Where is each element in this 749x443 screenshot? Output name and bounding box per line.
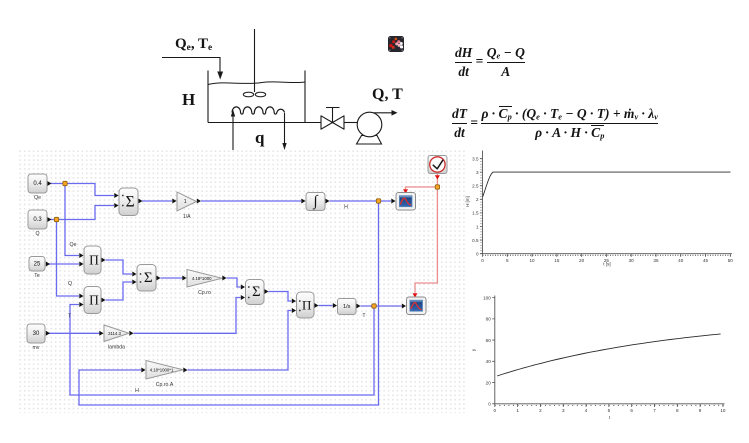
wire gain Cp.ro.A to product3: [188, 311, 292, 371]
port arrow sum2 out: [156, 276, 160, 281]
port arrow product1 out: [101, 258, 105, 263]
constant Q source=0.3: [28, 210, 47, 237]
svg-text:3: 3: [476, 170, 479, 175]
svg-text:40: 40: [678, 258, 684, 263]
wire sum1 to gain 1/A: [142, 200, 172, 202]
port arrow integrator out: [325, 199, 329, 204]
port arrow gain Cp.ro in: [182, 276, 186, 281]
gain gain Cp.ro=4.18*1000: [187, 270, 222, 297]
chart2 y tick labels: [483, 295, 491, 406]
wire Qe const to sum1: [51, 184, 114, 196]
port arrow sum1 in2: [114, 203, 118, 208]
svg-text:Σ: Σ: [126, 193, 135, 210]
svg-text:Q: Q: [68, 281, 72, 287]
block scope1 CSCOPE: [396, 193, 416, 211]
event wire junction to scope1: [406, 187, 438, 189]
svg-text:10: 10: [720, 408, 726, 413]
dotted grid canvas of block diagram: [17, 148, 466, 413]
svg-text:Σ: Σ: [144, 270, 153, 286]
chart2 y-axis: [494, 296, 496, 404]
svg-text:60: 60: [486, 338, 492, 343]
wire gain 1/A to integrator: [201, 200, 301, 202]
chart2 x major ticks: [495, 404, 723, 407]
port arrow product3 out: [314, 303, 318, 308]
port arrow product2 in1: [79, 294, 83, 299]
block sum1 &#931;: [119, 188, 138, 216]
stirrer blade right: [255, 92, 265, 97]
pump circle: [357, 112, 382, 137]
port arrow product2 out: [101, 298, 105, 303]
constant Qe source=0.4: [28, 174, 47, 201]
chart1 x major ticks: [483, 254, 731, 257]
valve stem: [326, 108, 340, 123]
tank bottom / outlet pipe: [208, 122, 321, 124]
chart1 y minor ticks: [480, 159, 482, 254]
svg-text:2: 2: [539, 408, 542, 413]
chart2 curve T(t): [497, 334, 720, 376]
port arrow gain lambda out: [129, 331, 133, 336]
port arrow sum1 in1: [114, 193, 118, 198]
svg-text:5: 5: [506, 258, 509, 263]
svg-text:t: t: [609, 415, 611, 420]
svg-text:Σ: Σ: [252, 284, 260, 300]
block sum3 &#931;: [246, 280, 265, 305]
chart1 curve H(t): [483, 172, 731, 196]
svg-text:1/s: 1/s: [343, 304, 351, 310]
tank left wall: [207, 71, 209, 123]
svg-text:15: 15: [554, 258, 560, 263]
svg-text:0: 0: [476, 252, 479, 257]
port arrow const Qe out: [47, 181, 51, 186]
wire gain Cp.ro to sum3: [227, 278, 241, 287]
svg-text:5: 5: [608, 408, 611, 413]
port arrow scope2 event in: [413, 293, 418, 297]
svg-text:1: 1: [516, 408, 519, 413]
port arrow const Q out: [47, 217, 51, 222]
block scope2 CSCOPE: [407, 297, 427, 315]
block 1/s: [338, 299, 357, 315]
svg-text:2114.3: 2114.3: [108, 331, 121, 336]
svg-text:8: 8: [676, 408, 679, 413]
svg-text:10: 10: [529, 258, 535, 263]
svg-text:2: 2: [476, 197, 479, 202]
chart1 x-axis: [483, 253, 733, 255]
block product3 &#928;: [297, 292, 315, 318]
port arrow sum3 in1: [241, 285, 245, 290]
port signs sum1: [122, 195, 124, 207]
port arrow product1 in2: [79, 262, 83, 267]
svg-text:Te: Te: [34, 273, 40, 279]
equation dT/dt: [452, 106, 658, 142]
port arrow sum2 in2: [132, 280, 136, 285]
pump base: [357, 136, 382, 145]
valve body: [321, 116, 344, 129]
wire mv to gain lambda: [49, 332, 100, 334]
port arrow 1/s out: [356, 304, 360, 309]
svg-text:Q: Q: [35, 231, 39, 237]
svg-text:H: H: [344, 205, 348, 211]
svg-text:35: 35: [653, 258, 659, 263]
port arrow gain lambda in: [99, 331, 103, 336]
inlet pipe Qe,Te: [162, 58, 220, 73]
junction node Q: [54, 217, 58, 221]
svg-text:45: 45: [703, 258, 709, 263]
wire integrator to scope1: [330, 200, 392, 202]
svg-text:20: 20: [486, 380, 492, 385]
svg-text:30: 30: [629, 258, 635, 263]
constant Te source=25: [29, 257, 45, 280]
svg-text:4: 4: [585, 408, 588, 413]
svg-text:t [s]: t [s]: [603, 262, 610, 267]
svg-text:1/A: 1/A: [183, 214, 191, 220]
wire T feedback: [70, 305, 374, 396]
svg-text:6: 6: [630, 408, 633, 413]
port arrow gain 1/A in: [172, 199, 176, 204]
inlet arrowhead: [217, 72, 223, 80]
port arrow const Te out: [46, 262, 50, 267]
outlet line Q,T: [374, 112, 393, 114]
port arrow gain Cp.ro.A out: [183, 368, 187, 373]
wire 1/s to scope2: [361, 305, 402, 307]
svg-text:0.3: 0.3: [33, 217, 42, 223]
svg-text:H: H: [135, 388, 139, 394]
port arrow 1/s in: [333, 303, 337, 308]
svg-text:0: 0: [481, 258, 484, 263]
svg-text:0.5: 0.5: [472, 238, 479, 243]
svg-text:9: 9: [699, 408, 702, 413]
svg-text:30: 30: [33, 331, 40, 337]
port arrow product3 in2: [292, 308, 296, 313]
svg-text:2.5: 2.5: [472, 184, 479, 189]
chart2 x-axis: [495, 403, 725, 405]
heater right lead: [284, 113, 286, 143]
port arrow product3 in1: [292, 299, 296, 304]
heater right lead arrowhead (down): [282, 143, 286, 150]
wire product2 to sum2: [106, 282, 133, 300]
chart1 x tick labels: [481, 258, 733, 263]
equation dH/dt: [455, 45, 525, 80]
heater left lead arrowhead (up): [231, 110, 235, 117]
junction node Qe: [63, 181, 67, 185]
svg-text:lambda: lambda: [108, 345, 125, 351]
stirrer blade left: [243, 92, 253, 97]
svg-text:1: 1: [476, 224, 479, 229]
chart1 y major ticks: [480, 159, 483, 254]
port arrow const mv out: [46, 331, 50, 336]
block clock: [428, 156, 447, 174]
svg-text:7: 7: [653, 408, 656, 413]
chart1 y-axis: [482, 151, 484, 254]
event wire junction to scope2: [415, 187, 437, 293]
svg-text:40: 40: [486, 359, 492, 364]
svg-text:mv: mv: [33, 345, 40, 351]
block integrator: [306, 193, 325, 211]
wire sum2 to gain Cp.ro: [161, 277, 183, 279]
tank right wall: [304, 71, 306, 123]
wire Qe branch to product1: [65, 184, 79, 256]
wire Q const to sum1: [51, 206, 114, 220]
svg-text:Cp.ro: Cp.ro: [198, 290, 211, 296]
svg-text:0.4: 0.4: [33, 181, 42, 187]
port arrow sum3 out: [264, 289, 268, 294]
constant mv source=30: [27, 324, 45, 351]
gain gain lambda=2114.3: [104, 325, 129, 351]
gain gain Cp.ro.A=4.18*1000*1: [146, 361, 183, 389]
junction node clock: [435, 185, 439, 189]
svg-text:Π: Π: [89, 293, 99, 308]
svg-text:3.5: 3.5: [472, 156, 479, 161]
port arrow scope2 in: [402, 304, 406, 309]
event wire clock to junction: [436, 174, 438, 187]
port arrow product1 in1: [79, 253, 83, 258]
svg-text:H [m]: H [m]: [465, 196, 470, 207]
scilab app icon: [388, 36, 404, 52]
svg-text:3: 3: [562, 408, 565, 413]
svg-text:Π: Π: [89, 253, 99, 268]
port arrow gain 1/A out: [197, 199, 201, 204]
port arrow integrator in: [301, 199, 305, 204]
block product1 &#928;: [84, 246, 101, 274]
port arrow clock event out: [435, 175, 440, 179]
port arrow sum3 in2: [241, 295, 245, 300]
port arrow gain Cp.ro.A in: [141, 368, 145, 373]
wire product1 to sum2: [106, 260, 133, 274]
heater left lead: [232, 116, 234, 150]
svg-text:0: 0: [488, 402, 491, 407]
gain gain 1/A=1: [177, 192, 197, 220]
wire product3 to 1/s: [319, 305, 333, 307]
junction node T: [372, 304, 376, 308]
wire gain lambda to sum3: [134, 298, 241, 334]
svg-text:1: 1: [184, 199, 187, 205]
chart1 y tick labels: [472, 156, 479, 256]
heating coil: [232, 107, 285, 114]
svg-text:1.5: 1.5: [472, 211, 479, 216]
svg-text:Π: Π: [302, 298, 311, 313]
svg-text:25: 25: [34, 261, 41, 267]
port arrow gain Cp.ro out: [222, 276, 226, 281]
port arrow sum2 in1: [132, 272, 136, 277]
svg-text:100: 100: [483, 295, 491, 300]
wire Te to product1: [48, 263, 79, 265]
water surface: [208, 82, 305, 85]
block product2 &#928;: [84, 287, 101, 314]
wire H feedback: [79, 201, 379, 405]
tank schematic text labels: [175, 36, 212, 53]
port signs sum2: [140, 273, 142, 283]
chart2 y major ticks: [492, 298, 495, 404]
port arrow sum1 out: [138, 199, 142, 204]
chart2 x minor ticks: [495, 404, 725, 406]
svg-text:y: y: [471, 348, 476, 351]
svg-text:T: T: [68, 314, 72, 320]
svg-text:50: 50: [728, 258, 734, 263]
port arrow scope1 in: [391, 199, 395, 204]
wire sum3 to product3: [269, 292, 292, 302]
pipe valve to pump: [344, 122, 358, 124]
svg-text:Qe: Qe: [70, 242, 77, 248]
svg-text:Cp.ro.A: Cp.ro.A: [156, 382, 174, 388]
wire Q branch to product2: [57, 220, 80, 297]
junction node H: [376, 199, 380, 203]
port arrow scope1 event in: [403, 189, 408, 193]
svg-text:20: 20: [579, 258, 585, 263]
svg-text:Qe: Qe: [34, 195, 41, 201]
svg-text:80: 80: [486, 317, 492, 322]
svg-text:4.18*1000*1: 4.18*1000*1: [150, 368, 174, 373]
port signs sum3: [248, 286, 250, 298]
svg-text:0: 0: [494, 408, 497, 413]
svg-text:T: T: [362, 313, 366, 319]
chart1 x minor ticks: [483, 254, 733, 256]
svg-text:4.18*1000: 4.18*1000: [192, 276, 212, 281]
outlet arrowhead: [392, 110, 398, 116]
stirrer shaft: [254, 29, 256, 92]
block sum2 &#931;: [137, 265, 156, 292]
port arrow product2 in2: [79, 302, 83, 307]
port signs product3: [299, 300, 301, 311]
chart2 x tick labels: [494, 408, 726, 413]
